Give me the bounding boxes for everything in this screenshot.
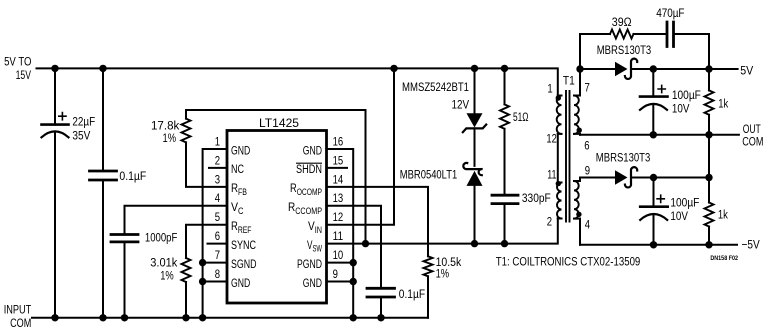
svg-text:MBRS130T3: MBRS130T3 [597,43,652,57]
svg-text:1000pF: 1000pF [145,230,177,244]
U1 pin numbers left 1-8 [215,134,220,281]
U1 left pin labels [231,143,257,289]
wire T1 pin7 up to 5V diode row [579,69,581,96]
diode D1 MMSZ5242BT1 12V zener [463,68,486,132]
svg-text:0.1µF: 0.1µF [119,169,146,183]
svg-text:7: 7 [215,248,220,262]
capacitor C3 1000pF on VC [111,206,227,318]
svg-text:0.1µF: 0.1µF [399,287,425,301]
svg-text:8: 8 [215,267,220,281]
pin 15 SHDN stub [327,167,348,169]
T1 lower primary winding pins 11-2 [557,183,562,219]
svg-text:−5V: −5V [742,238,761,252]
resistor R3 10.5k 1% ROCOMP to ground [327,187,433,318]
svg-text:12V: 12V [452,97,470,111]
wire ground bus pins 1,7,8 [203,149,227,318]
svg-text:9: 9 [585,164,590,178]
svg-text:12: 12 [333,210,344,224]
resistor R5 39ohm [580,30,667,70]
svg-text:13: 13 [333,191,344,205]
svg-text:LT1425: LT1425 [259,116,299,130]
wire VSW pin11 row to transformer pin 2 [327,218,558,243]
svg-text:GND: GND [303,276,322,290]
U1 pin numbers right 16-9 [333,134,344,281]
wire out com rail [580,134,739,136]
T1 lower secondary winding pins 9-4 [574,181,580,219]
svg-text:7: 7 [585,80,590,94]
wire T1 pin6 to out com rail [579,133,581,136]
svg-text:INPUT: INPUT [4,302,32,316]
pin 6 SYNC stub [208,243,228,245]
svg-text:MBR0540LT1: MBR0540LT1 [400,168,458,182]
svg-text:1%: 1% [436,267,450,281]
svg-text:MBRS130T3: MBRS130T3 [596,150,651,164]
wire -5V rail [580,244,737,246]
wire input rail 5V-15V [37,68,558,95]
svg-text:2: 2 [547,215,552,229]
svg-text:6: 6 [584,139,589,153]
svg-text:470µF: 470µF [656,6,684,20]
svg-text:1%: 1% [163,131,177,145]
wire link pin12 to pin11 [557,134,559,183]
svg-text:12: 12 [546,131,557,145]
svg-text:22µF: 22µF [72,115,95,129]
svg-text:SGND: SGND [231,257,257,271]
svg-text:39Ω: 39Ω [612,15,632,29]
T1 upper primary winding pins 1-12 [557,96,562,134]
svg-text:100µF: 100µF [672,88,701,102]
diode D4 MBRS130T3 -5V rectifier [580,167,709,187]
svg-text:15V: 15V [16,68,32,82]
resistor R4 51ohm snubber [500,68,509,195]
pin 2 NC stub [209,167,227,169]
T1 phase dots [556,95,582,217]
svg-text:T1: T1 [563,73,575,87]
capacitor C5 330pF snubber [492,195,518,243]
svg-text:5V: 5V [740,63,754,77]
svg-text:11: 11 [333,229,344,243]
svg-text:11: 11 [547,167,556,181]
wire VIN pin12 to input rail [327,68,395,224]
svg-text:1%: 1% [160,268,174,282]
svg-text:1k: 1k [718,207,729,221]
wire T1 pin9 to -5V diode row [579,178,581,182]
capacitor C1 22uF 35V input electrolytic [42,68,69,317]
svg-text:4: 4 [585,218,590,232]
svg-text:35V: 35V [72,129,91,143]
op-amp U1 LT1425 switching regulator IC [227,131,327,304]
wire T1 pin4 to -5V rail [579,219,581,245]
diode D2 MBR0540LT1 schottky clamp [463,128,482,243]
svg-text:PGND: PGND [297,257,322,271]
svg-text:DN158 F02: DN158 F02 [710,256,738,262]
svg-text:3: 3 [215,172,220,186]
capacitor C4 0.1uF on RCCOMP [327,206,395,318]
svg-text:GND: GND [231,276,250,290]
resistor R6 1k 5V load [705,69,714,135]
capacitor C6 470uF [667,22,709,69]
svg-text:NC: NC [231,162,244,176]
svg-text:10V: 10V [672,101,690,115]
svg-text:10V: 10V [670,209,688,223]
svg-text:9: 9 [333,267,338,281]
svg-text:SHDN: SHDN [296,162,322,176]
svg-text:MMSZ5242BT1: MMSZ5242BT1 [402,80,469,94]
svg-text:1k: 1k [718,96,729,110]
T1 core [566,91,570,222]
capacitor C2 0.1uF input bypass [90,68,117,317]
diode D3 MBRS130T3 5V rectifier [580,59,738,79]
svg-text:10: 10 [333,248,344,262]
svg-text:15: 15 [333,153,344,167]
capacitor C8 100uF 10V output electrolytic [640,178,668,245]
U1 right pin labels [288,143,322,289]
svg-text:5: 5 [215,210,220,224]
svg-text:COM: COM [10,316,31,330]
svg-text:GND: GND [231,143,250,157]
resistor R7 1k -5V load [705,135,714,245]
svg-text:330pF: 330pF [522,191,551,205]
T1 upper secondary winding pins 7-6 [574,96,580,134]
resistor R1 17.8k 1% from RFB to VSW line [182,110,366,244]
wire input com rail [32,317,428,319]
svg-text:51Ω: 51Ω [513,110,529,124]
svg-text:COM: COM [742,135,763,149]
svg-text:1: 1 [215,134,220,148]
svg-text:SYNC: SYNC [231,238,256,252]
svg-text:100µF: 100µF [670,195,699,209]
svg-text:2: 2 [215,153,220,167]
svg-text:1: 1 [547,82,552,96]
svg-text:4: 4 [215,191,220,205]
svg-text:T1: COILTRONICS CTX02-13509: T1: COILTRONICS CTX02-13509 [496,255,641,269]
svg-text:GND: GND [303,143,322,157]
wire pin16 GND to ground bus [327,149,354,318]
svg-text:16: 16 [333,134,344,148]
svg-text:6: 6 [215,229,220,243]
U1 SHDN overline [296,162,322,164]
svg-text:14: 14 [333,172,344,186]
resistor R2 3.01k 1% on RREF [182,225,228,318]
capacitor C7 100uF 10V output electrolytic [640,69,668,135]
svg-text:5V TO: 5V TO [4,54,31,68]
